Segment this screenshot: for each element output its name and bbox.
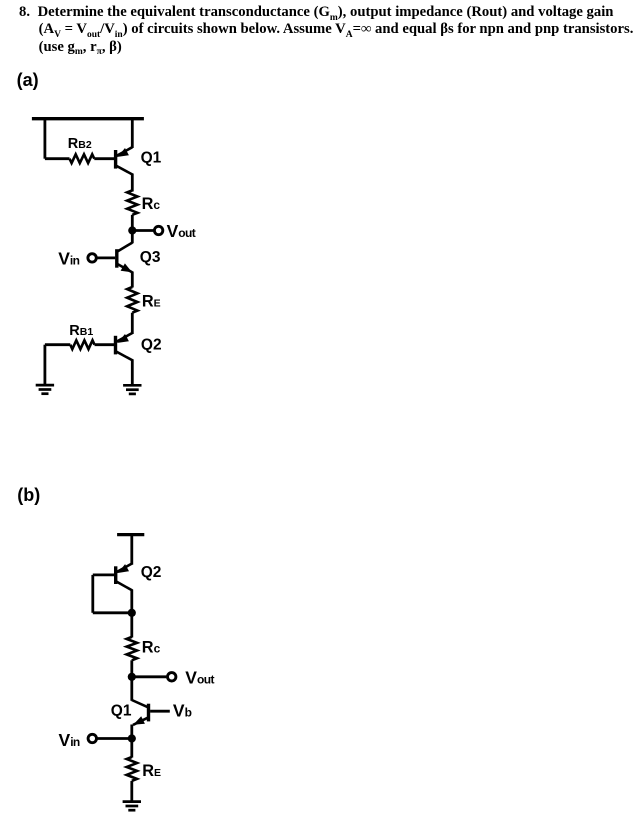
svg-text:Q3: Q3 bbox=[140, 249, 161, 266]
svg-text:Vin: Vin bbox=[59, 730, 80, 750]
svg-text:Q2: Q2 bbox=[141, 336, 162, 353]
svg-text:Vin: Vin bbox=[58, 249, 79, 269]
svg-text:Q1: Q1 bbox=[141, 150, 162, 167]
svg-text:RE: RE bbox=[142, 293, 161, 311]
svg-text:RE: RE bbox=[142, 762, 161, 780]
svg-text:Q1: Q1 bbox=[111, 703, 132, 720]
svg-text:Vout: Vout bbox=[185, 667, 214, 687]
svg-text:Rc: Rc bbox=[142, 195, 161, 213]
svg-text:Vout: Vout bbox=[167, 221, 196, 241]
svg-text:Vb: Vb bbox=[173, 700, 192, 720]
svg-text:RB1: RB1 bbox=[69, 323, 93, 339]
svg-text:RB2: RB2 bbox=[68, 136, 92, 152]
svg-text:Q2: Q2 bbox=[141, 564, 162, 581]
svg-text:Rc: Rc bbox=[142, 639, 161, 657]
